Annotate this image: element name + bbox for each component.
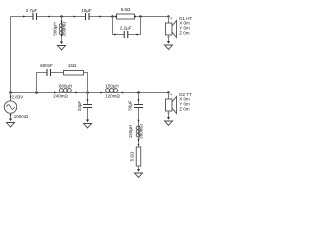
pin arrow R3 top xyxy=(138,144,140,146)
wire shunt cap branch xyxy=(87,93,89,105)
svg-text:2.83V: 2.83V xyxy=(12,94,24,99)
svg-text:+: + xyxy=(170,16,173,21)
node mid rail left xyxy=(9,91,12,94)
pin arrow C2 left xyxy=(74,16,77,18)
resistor R3 5.6Ω xyxy=(136,147,141,166)
resistor R1 5.6Ω xyxy=(117,14,135,19)
node RC branch right / shunt cap xyxy=(86,91,89,94)
wire C6 to L4 xyxy=(138,108,140,148)
pin arrow C1 left xyxy=(23,16,26,18)
ground below C5 xyxy=(86,120,89,123)
svg-text:5.6Ω: 5.6Ω xyxy=(121,7,131,12)
inductor L3 150µH xyxy=(106,89,110,93)
pin arrow L3 right xyxy=(121,92,124,94)
svg-text:240mΩ: 240mΩ xyxy=(53,93,68,98)
svg-text:Z 0m: Z 0m xyxy=(179,107,190,112)
svg-text:15µF: 15µF xyxy=(81,8,92,13)
svg-text:100mΩ: 100mΩ xyxy=(14,114,29,119)
svg-text:5.6Ω: 5.6Ω xyxy=(129,151,134,161)
pin arrow C3 right xyxy=(135,34,138,36)
pin arrow L2 right xyxy=(74,92,77,94)
wire left rail xyxy=(10,17,12,102)
pin arrow R1 right xyxy=(134,16,137,18)
capacitor C1 2.7µF xyxy=(33,13,37,20)
ground below D2 TT xyxy=(167,117,170,120)
svg-text:120mΩ: 120mΩ xyxy=(105,93,120,98)
svg-text:56µF: 56µF xyxy=(127,100,132,111)
svg-text:360mΩ: 360mΩ xyxy=(62,21,67,36)
capacitor C2 15µF xyxy=(86,13,90,20)
pin arrow C1 right xyxy=(47,16,50,18)
capacitor C6 56µF xyxy=(134,105,143,108)
inductor L4 150µH xyxy=(136,126,140,130)
speaker D1 HT xyxy=(167,15,169,17)
svg-text:150µH: 150µH xyxy=(105,84,118,89)
node RC block right xyxy=(139,15,142,18)
svg-text:33µF: 33µF xyxy=(77,101,82,112)
pin arrow L1 bottom xyxy=(61,35,63,37)
svg-text:Z 0m: Z 0m xyxy=(179,31,190,36)
svg-text:680µH: 680µH xyxy=(59,84,72,89)
wire 500µH branch xyxy=(61,17,63,42)
svg-text:680nF: 680nF xyxy=(40,63,53,68)
source V1 xyxy=(10,93,12,102)
pin arrow C4 right xyxy=(63,72,66,74)
svg-text:2.7µF: 2.7µF xyxy=(26,8,38,13)
pin arrow L2 left xyxy=(54,92,57,94)
wire notch branch top xyxy=(138,93,140,105)
node top of 500µH xyxy=(60,15,63,18)
ground below L1 xyxy=(60,42,63,45)
svg-text:+: + xyxy=(170,92,173,97)
ground below source xyxy=(9,119,12,122)
svg-text:150µH: 150µH xyxy=(128,125,133,138)
capacitor C4 680nF xyxy=(47,69,51,76)
svg-text:2.2µF: 2.2µF xyxy=(120,26,132,31)
svg-text:500µH: 500µH xyxy=(52,22,57,35)
inductor L1 500µH xyxy=(59,24,63,28)
wire source to ground xyxy=(10,113,12,118)
node notch branch xyxy=(137,91,140,94)
ground below D1 HT xyxy=(167,41,170,44)
pin arrow C3 left xyxy=(114,34,117,36)
inductor L2 680µH xyxy=(59,89,63,93)
pin arrow C2 right xyxy=(98,16,101,18)
svg-text:15Ω: 15Ω xyxy=(68,63,77,68)
pin arrow L3 left xyxy=(100,92,103,94)
wire C5 to ground xyxy=(87,108,89,120)
pin arrow L1 top xyxy=(61,21,63,23)
svg-text:360mΩ: 360mΩ xyxy=(138,124,143,139)
pin arrow L4 bottom xyxy=(138,139,140,141)
pin arrow R1 left xyxy=(115,16,118,18)
node RC branch left xyxy=(35,91,38,94)
wire top rail xyxy=(11,16,169,18)
speaker D2 TT xyxy=(167,91,169,93)
wire 2.2µF lower branch xyxy=(113,17,141,35)
wire mid rail xyxy=(11,92,169,94)
resistor R2 15Ω xyxy=(64,71,84,76)
capacitor C5 33µF xyxy=(83,105,92,108)
wire R3 to ground xyxy=(138,166,140,169)
wire RC parallel branch xyxy=(37,73,88,93)
node RC block left xyxy=(111,15,114,18)
ground bottom chain xyxy=(137,169,140,172)
capacitor C3 2.2µF xyxy=(124,31,128,38)
